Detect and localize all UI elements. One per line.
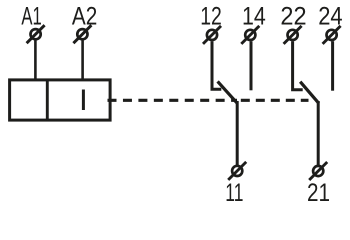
svg-text:12: 12 <box>200 2 222 30</box>
wire A2 to coil <box>81 41 84 80</box>
terminal A1 <box>27 25 45 43</box>
wire 14 NO fixed contact <box>250 41 253 90</box>
terminal 11 <box>228 162 246 180</box>
terminal A2 <box>73 25 91 43</box>
coil divider <box>46 80 49 120</box>
wire pivot to terminal 21 <box>317 101 320 165</box>
wire pivot to terminal 11 <box>236 101 239 165</box>
wire A1 to coil <box>34 41 37 80</box>
mechanical link dashed wire (coil to contact 1) <box>108 99 238 102</box>
wire 22 NC fixed contact (L shape) <box>293 41 303 89</box>
svg-text:21: 21 <box>307 179 330 207</box>
terminal 12 <box>203 26 221 44</box>
wire 24 NO fixed contact <box>331 41 334 90</box>
contact arm 1 (movable blade) <box>218 81 238 103</box>
terminal 22 <box>284 26 302 44</box>
svg-text:24: 24 <box>318 2 342 30</box>
svg-text:A1: A1 <box>21 2 41 30</box>
svg-text:14: 14 <box>242 2 266 30</box>
coil K1 box <box>10 80 111 120</box>
coil inner bar <box>82 90 85 111</box>
mechanical link dashed wire (contact 1 to contact 2) <box>241 99 309 102</box>
contact arm 2 (movable blade) <box>300 82 319 104</box>
svg-text:11: 11 <box>225 179 243 207</box>
terminal 21 <box>309 162 327 180</box>
terminal 24 <box>323 26 341 44</box>
terminal 14 <box>241 26 259 44</box>
svg-text:22: 22 <box>280 2 306 30</box>
svg-text:A2: A2 <box>72 2 97 30</box>
wire 12 NC fixed contact (L shape) <box>212 41 221 89</box>
